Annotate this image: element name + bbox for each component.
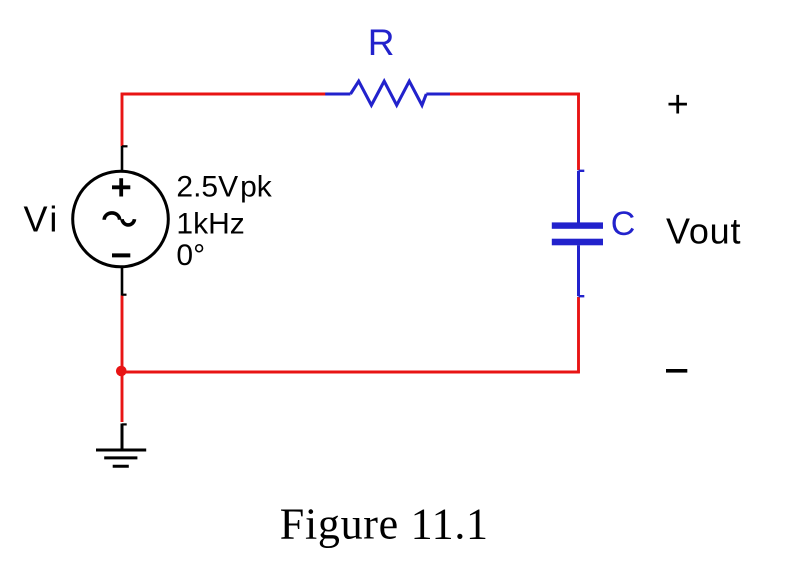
ground bar 3 (short) [113,465,129,468]
junction dot at bottom-left node [116,366,127,377]
capacitor C top plate [552,222,603,228]
wire: right vertical bottom (capacitor to bottom wire) [577,297,580,373]
svg-text:Vout: Vout [666,211,741,252]
AC source sine squiggle [104,213,134,225]
svg-text:+: + [667,84,689,126]
AC source plus mark [112,178,130,196]
resistor R zigzag [351,81,427,105]
label R [368,22,395,63]
ground bar 1 (long) [96,449,146,452]
svg-text:1kHz: 1kHz [176,207,244,240]
wire: bottom horizontal [121,371,580,374]
AC source top pin (black) [122,146,128,171]
wire: right vertical top (top wire to capacitor) [577,93,580,170]
svg-text:Figure 11.1: Figure 11.1 [280,499,489,548]
label 2.5Vpk [176,171,272,204]
svg-text:0°: 0° [176,239,205,272]
wire: top horizontal left segment [121,93,327,96]
label C [611,205,636,243]
AC source V1 circle [73,171,169,267]
resistor R right lead [426,93,450,96]
AC source minus mark [112,253,130,257]
svg-text:R: R [368,22,395,63]
capacitor C bottom plate [552,239,603,246]
caption Figure 11.1 [280,499,489,548]
capacitor C top lead (blue) [579,171,585,223]
label Vi [24,199,60,240]
label plus (output polarity) [667,84,689,126]
ground symbol stem [122,424,127,451]
wire: left vertical bottom (source to junction to ground) [121,296,124,423]
AC source bottom pin (black) [122,267,127,296]
wire: left vertical top (source to top wire) [121,93,124,146]
capacitor C bottom lead (blue) [579,245,585,296]
label 0 degrees [176,239,205,272]
label Vout [666,211,741,252]
svg-text:C: C [611,205,636,243]
svg-text:2.5Vpk: 2.5Vpk [176,171,272,204]
resistor R body: left lead [325,93,350,96]
wire: top horizontal right segment [450,93,580,96]
svg-text:Vi: Vi [24,199,60,240]
label 1kHz [176,207,244,240]
label minus (output polarity) [666,369,687,373]
ground bar 2 (middle) [104,456,137,459]
